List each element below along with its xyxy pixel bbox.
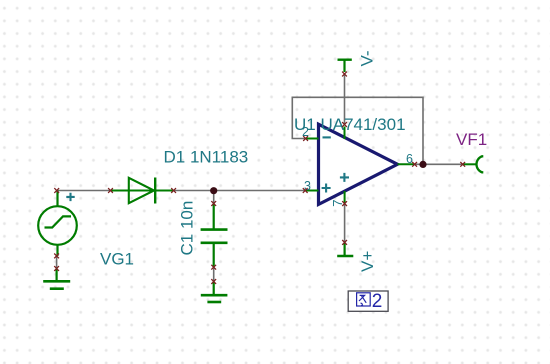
terminal V- bbox=[338, 60, 352, 72]
op-amp non-inverting input plus marker bbox=[322, 184, 331, 193]
svg-text:V+: V+ bbox=[358, 251, 377, 272]
wire op-amp pin 7 to V+ terminal bbox=[344, 204, 346, 243]
pin cross markers bbox=[54, 72, 465, 284]
diode D1 bbox=[111, 178, 174, 204]
figure caption box 图2 bbox=[348, 291, 388, 311]
op-amp pin 3 stub bbox=[305, 190, 318, 192]
caption character tu (drawn) bbox=[357, 293, 371, 306]
svg-text:6: 6 bbox=[406, 152, 413, 166]
wire junction to capacitor C1 top pin bbox=[213, 191, 215, 204]
op-amp pin 7 stub bbox=[344, 191, 346, 204]
capacitor C1 bbox=[201, 204, 228, 268]
op-amp inverting input minus marker bbox=[323, 136, 331, 138]
svg-text:C1 10n: C1 10n bbox=[178, 201, 197, 256]
op-amp V- supply pin stub bbox=[344, 127, 346, 140]
wire output pin 6 to VF1 terminal bbox=[415, 163, 463, 165]
svg-text:2: 2 bbox=[372, 291, 383, 312]
op-amp pin 2 stub bbox=[306, 138, 319, 140]
feedback wire from output junction up and around to op-amp pin 2 bbox=[292, 97, 423, 164]
junction node at D1/C1 bbox=[210, 187, 217, 194]
svg-text:V-: V- bbox=[358, 50, 377, 66]
svg-text:D1 1N1183: D1 1N1183 bbox=[164, 148, 249, 167]
ground below C1 bbox=[201, 282, 228, 303]
svg-text:U1 UA741/301: U1 UA741/301 bbox=[294, 115, 406, 134]
svg-text:VF1: VF1 bbox=[456, 130, 487, 149]
svg-text:2: 2 bbox=[302, 125, 309, 139]
op-amp output pin 6 stub bbox=[398, 163, 415, 165]
wire from VG1 top corner to diode anode bbox=[57, 190, 111, 192]
op-amp U1 triangle bbox=[319, 124, 398, 204]
wire capacitor C1 bottom pin to ground pin bbox=[213, 267, 215, 281]
voltage source VG1 bbox=[38, 191, 77, 256]
wire from diode cathode to op-amp pin 3 bbox=[174, 190, 306, 192]
svg-text:VG1: VG1 bbox=[100, 250, 134, 269]
terminal V+ bbox=[337, 242, 353, 256]
wire VG1 bottom pin to ground pin bbox=[56, 256, 58, 269]
op-amp inner plus marker bbox=[340, 173, 349, 182]
ground below VG1 bbox=[43, 269, 70, 289]
terminal VF1 (open arc) bbox=[463, 156, 484, 172]
junction node at output bbox=[419, 161, 426, 168]
wire V- terminal to op-amp V- pin bbox=[344, 75, 346, 125]
VG1 plus polarity marker bbox=[66, 193, 74, 201]
